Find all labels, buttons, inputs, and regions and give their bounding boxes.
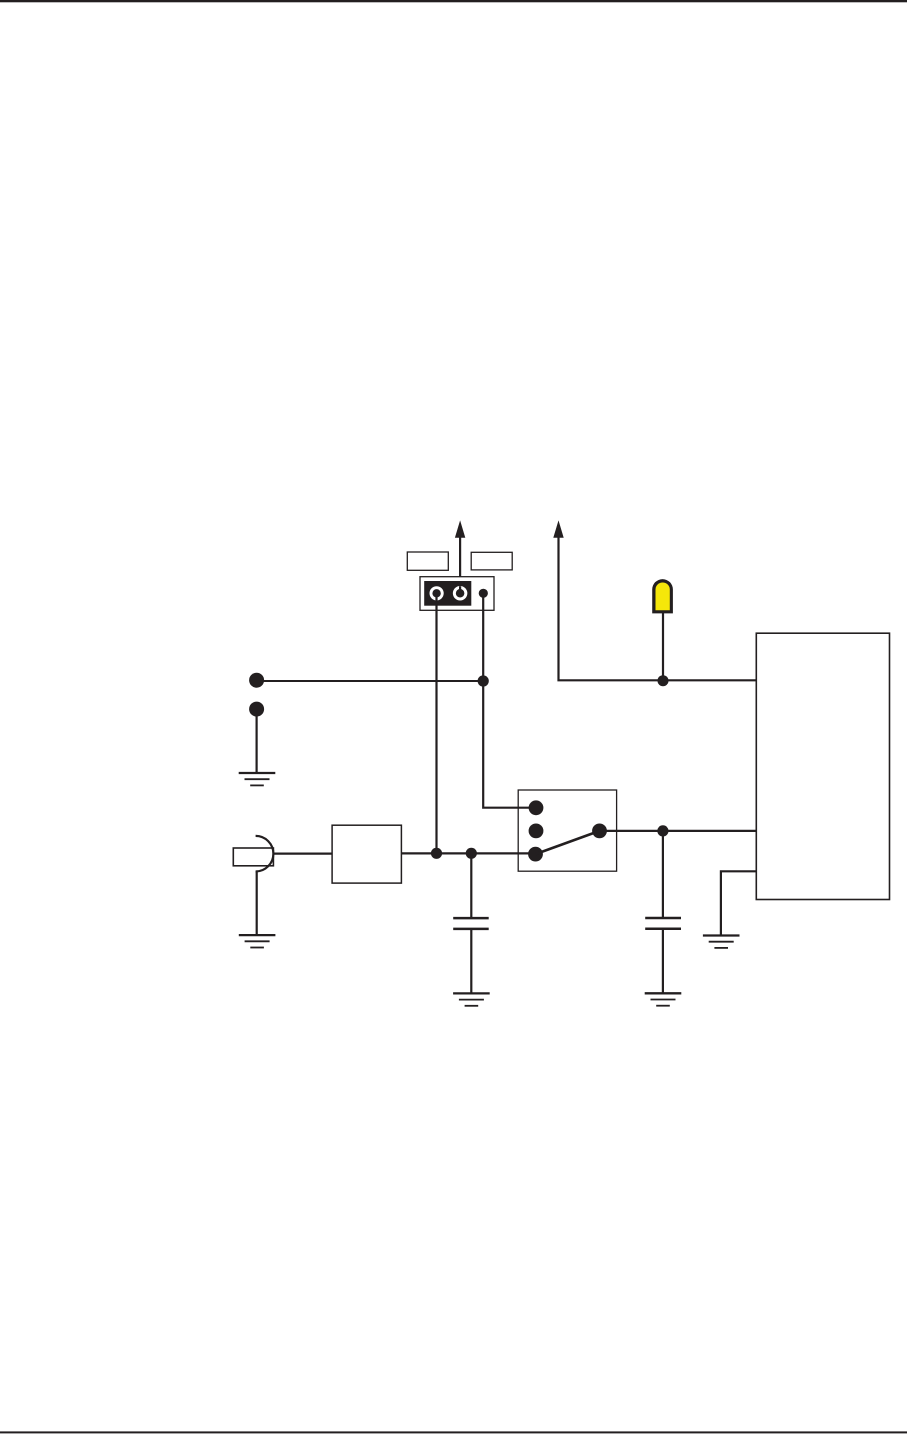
ground (resonator) xyxy=(239,935,276,947)
switch common contact xyxy=(592,824,607,839)
capacitor C2 plates xyxy=(645,917,681,920)
arrow 2 head xyxy=(553,520,563,537)
node VCC / pin3 junction xyxy=(478,675,489,686)
node pin1 wire / oscillator net xyxy=(431,848,442,859)
wire IC ground stub xyxy=(721,871,757,936)
wire C2 to ground xyxy=(662,929,664,993)
wire resonator to oscillator xyxy=(273,852,332,854)
node C1 branch xyxy=(466,848,477,859)
arrow 1 head xyxy=(455,520,465,537)
resonator arc xyxy=(256,836,274,872)
IC box (microcontroller) xyxy=(756,633,889,899)
switch box xyxy=(518,790,616,871)
terminal dot GND xyxy=(249,702,264,717)
terminal dot VCC xyxy=(249,673,264,688)
arrow 2 (VDD) shaft and wire to IC xyxy=(559,532,757,680)
LED D1 body outline xyxy=(652,579,673,613)
ground (terminal) xyxy=(239,773,276,785)
jumper JP1 black header xyxy=(424,581,471,606)
jumper pin 2 ring xyxy=(453,586,468,601)
switch contact 3 xyxy=(528,847,543,862)
wire terminal GND down xyxy=(256,709,258,773)
wire jumper pin3 down and to switch contact 1 xyxy=(483,593,536,807)
jumper JP1 outer body xyxy=(420,577,494,611)
switch contact 2 xyxy=(529,824,544,839)
ground (C1) xyxy=(453,993,490,1005)
label box right xyxy=(471,552,512,570)
wire LED lead xyxy=(662,613,664,681)
node LED / VDD wire xyxy=(658,675,669,686)
LED D1 yellow lens xyxy=(656,582,670,610)
switch contact 1 xyxy=(529,800,544,815)
arrow 1 shaft over pin 2 ring xyxy=(459,586,461,593)
wire C1 to ground xyxy=(470,929,472,993)
wire jumper pin1 down to oscillator net xyxy=(435,593,437,853)
wire resonator to ground xyxy=(256,871,258,935)
wire oscillator to switch contact 3 xyxy=(401,852,535,854)
ground (IC) xyxy=(703,936,740,948)
jumper pin 1 ring xyxy=(430,586,444,600)
jumper pin 3 dot xyxy=(479,589,488,598)
node C2 branch xyxy=(657,825,668,836)
wire C1 branch down xyxy=(470,853,472,917)
switch lever xyxy=(536,831,600,854)
top rule xyxy=(0,0,907,2)
label box left xyxy=(407,552,448,570)
arrow 1 (jumper supply) shaft xyxy=(459,532,461,593)
resonator body xyxy=(233,848,273,866)
bottom rule xyxy=(0,1431,907,1433)
ground (C2) xyxy=(645,993,682,1005)
capacitor C1 plates xyxy=(453,917,489,920)
wire switch common to IC xyxy=(600,830,757,832)
oscillator module box xyxy=(332,825,401,883)
wire VCC left (terminal to jumper pin3 node) xyxy=(257,680,484,682)
wire C2 branch down xyxy=(662,831,664,917)
